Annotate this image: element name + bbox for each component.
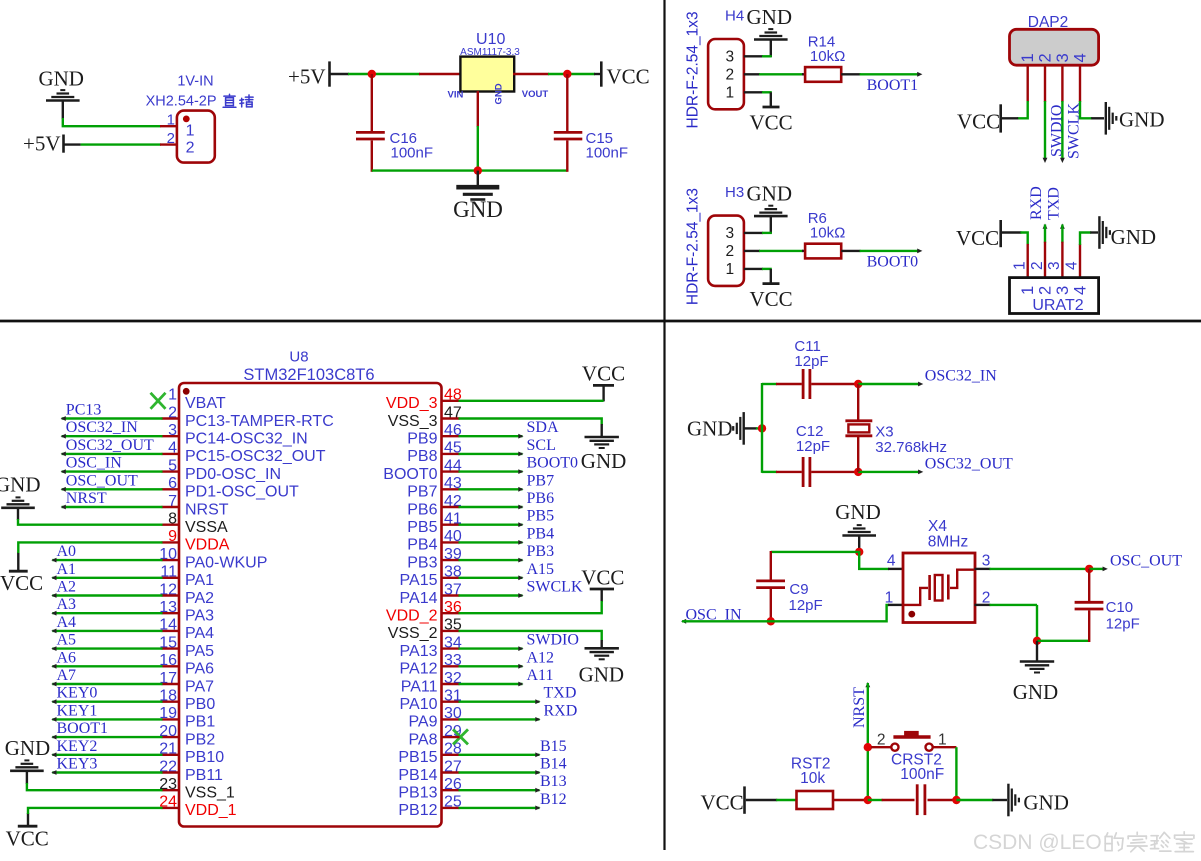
wire net A1 (pin 11)	[52, 577, 162, 579]
junction node CRST2/GND	[952, 796, 960, 804]
svg-text:PB8: PB8	[407, 448, 437, 465]
wire X4 pin2 down to gnd	[990, 604, 1038, 606]
svg-text:HDR-F-2.54_1x3: HDR-F-2.54_1x3	[684, 188, 701, 305]
wire URAT2 pin2 RXD	[1043, 224, 1048, 229]
wire to X4 pin 1	[886, 605, 889, 621]
svg-text:PB9: PB9	[407, 431, 437, 448]
wire net A3 (pin 13)	[52, 612, 162, 614]
svg-text:10k: 10k	[800, 770, 825, 787]
junction node VCC/C15	[563, 70, 571, 78]
svg-text:PA4: PA4	[185, 625, 214, 642]
svg-text:GND: GND	[494, 83, 505, 104]
svg-text:2: 2	[725, 243, 734, 260]
wire net BOOT1 (pin 20)	[52, 736, 162, 738]
wire DAP2 pin1 to VCC	[1017, 101, 1027, 118]
svg-text:2: 2	[725, 67, 734, 84]
URAT2 pin 1 stub	[1026, 244, 1028, 278]
wire junction to button pin2	[871, 746, 892, 748]
svg-text:VCC: VCC	[607, 65, 650, 89]
svg-text:GND: GND	[1023, 791, 1069, 815]
svg-text:GND: GND	[5, 736, 51, 760]
svg-text:PB6: PB6	[527, 490, 555, 507]
capacitor C11	[776, 383, 802, 385]
svg-text:A5: A5	[57, 632, 77, 649]
svg-text:PA10: PA10	[400, 696, 438, 713]
wire junction to C10	[1037, 640, 1089, 642]
wire pin 35 to GND	[459, 631, 602, 641]
wire to X4 pin 4	[859, 551, 889, 569]
svg-text:+5V: +5V	[288, 65, 326, 89]
svg-text:VCC: VCC	[956, 226, 999, 250]
power port VCC (H4)	[770, 92, 772, 106]
power ground (X4 bottom)	[1036, 641, 1038, 661]
wire net A5 (pin 15)	[52, 647, 162, 649]
connector 1V-IN pin-1 orientation dot	[183, 116, 190, 123]
svg-text:1: 1	[168, 387, 177, 404]
svg-text:VDDA: VDDA	[185, 537, 230, 554]
wire net PB6 (pin 42)	[459, 506, 523, 508]
wire net B13 (pin 26)	[459, 789, 540, 791]
svg-text:1: 1	[1019, 286, 1037, 295]
header H3 body	[708, 216, 744, 286]
wire net A0 (pin 10)	[52, 559, 162, 561]
svg-text:SWDIO: SWDIO	[527, 632, 579, 649]
capacitor C9 top lead	[770, 551, 772, 580]
svg-text:RXD: RXD	[1028, 186, 1045, 220]
svg-text:C10: C10	[1106, 599, 1134, 616]
svg-text:GND: GND	[38, 67, 84, 91]
svg-text:1: 1	[1019, 53, 1037, 62]
wire net OSC32_OUT (pin 4)	[62, 453, 163, 455]
svg-text:BOOT0: BOOT0	[867, 253, 919, 270]
junction node X4 pin2 gnd	[1033, 637, 1041, 645]
svg-text:H4: H4	[725, 8, 744, 25]
svg-text:GND: GND	[1013, 680, 1058, 704]
crystal X3	[845, 419, 872, 422]
U10 GND pin lead	[477, 91, 479, 127]
wire VCC to pin 48	[459, 400, 604, 402]
wire net KEY2 (pin 21)	[52, 754, 162, 756]
svg-text:12pF: 12pF	[789, 597, 823, 614]
wire H3 pin3 to GND	[744, 232, 763, 234]
junction node +5V/C16	[368, 70, 376, 78]
svg-text:A7: A7	[57, 667, 77, 684]
power port VCC (left of U8, pin 24 VDD_1)	[27, 813, 29, 826]
svg-text:VSS_2: VSS_2	[388, 625, 438, 642]
svg-text:2: 2	[1037, 286, 1055, 295]
wire GND to J1 pin1	[63, 118, 161, 126]
capacitor C15 top lead	[566, 74, 568, 131]
wire URAT2 pin4 to GND	[1080, 233, 1091, 245]
svg-text:3: 3	[1054, 286, 1072, 295]
svg-text:NRST: NRST	[66, 490, 107, 507]
wire RST2 to junction	[833, 799, 869, 801]
svg-text:OSC_OUT: OSC_OUT	[66, 472, 138, 489]
svg-text:PA2: PA2	[185, 590, 214, 607]
connector 1V-IN XH2.54-2P	[177, 111, 215, 163]
crystal X4 body	[903, 553, 975, 623]
svg-text:3: 3	[725, 49, 734, 66]
wire net KEY3 (pin 22)	[52, 771, 162, 773]
svg-text:4: 4	[887, 553, 896, 570]
wire URAT2 pin3 TXD	[1060, 224, 1065, 229]
svg-text:PC13: PC13	[66, 402, 102, 419]
junction node OSC32_IN	[854, 380, 862, 388]
wire DAP2 pin3 SWCLK	[1061, 101, 1063, 160]
svg-text:OSC_OUT: OSC_OUT	[1110, 553, 1182, 570]
wire net RXD (pin 30)	[459, 718, 540, 720]
capacitor C15	[554, 131, 583, 134]
svg-text:VSS_3: VSS_3	[388, 413, 438, 430]
svg-text:C9: C9	[789, 581, 808, 598]
pin stub U10 VIN	[419, 73, 461, 75]
svg-text:4: 4	[1071, 286, 1089, 295]
svg-text:PA8: PA8	[408, 731, 437, 748]
svg-text:RXD: RXD	[544, 702, 578, 719]
wire VCC to URAT2 pin1	[1002, 231, 1021, 233]
capacitor C9 bottom lead	[770, 589, 772, 622]
wire DAP2 pin4 to GND	[1080, 101, 1092, 118]
svg-text:PA14: PA14	[400, 590, 438, 607]
capacitor C16 bottom lead	[371, 141, 373, 172]
svg-text:PB4: PB4	[407, 537, 437, 554]
svg-text:4: 4	[1071, 53, 1089, 62]
X4 orientation dot	[908, 611, 915, 618]
svg-text:NRST: NRST	[851, 687, 868, 728]
power port VCC (H3)	[770, 269, 772, 283]
svg-text:SCL: SCL	[527, 437, 556, 454]
svg-text:A6: A6	[57, 649, 77, 666]
wire net PB4 (pin 40)	[459, 541, 523, 543]
wire net PB7 (pin 43)	[459, 488, 523, 490]
svg-text:BOOT1: BOOT1	[57, 720, 109, 737]
svg-text:1: 1	[938, 732, 947, 749]
wire button pin1 down	[933, 746, 957, 748]
svg-text:HDR-F-2.54_1x3: HDR-F-2.54_1x3	[684, 11, 701, 128]
crystal X3 top lead	[857, 384, 859, 421]
svg-text:PA3: PA3	[185, 608, 214, 625]
svg-text:3: 3	[725, 225, 734, 242]
svg-text:PB5: PB5	[407, 519, 437, 536]
svg-text:TXD: TXD	[1046, 187, 1063, 220]
divider vertical line	[663, 0, 665, 850]
svg-text:A2: A2	[57, 579, 77, 596]
junction node OSC32_OUT	[854, 468, 862, 476]
wire net SCL (pin 45)	[459, 453, 523, 455]
svg-text:A3: A3	[57, 596, 77, 613]
svg-text:PB11: PB11	[185, 767, 223, 784]
wire net SDA (pin 46)	[459, 435, 523, 437]
svg-text:A1: A1	[57, 561, 77, 578]
wire net KEY0 (pin 18)	[52, 701, 162, 703]
junction node RST2/NRST	[864, 796, 872, 804]
wire net A6 (pin 16)	[52, 665, 162, 667]
wire net A4 (pin 14)	[52, 630, 162, 632]
wire net B15 (pin 28)	[459, 754, 540, 756]
svg-text:PB5: PB5	[527, 508, 555, 525]
wire net PB3 (pin 39)	[459, 559, 523, 561]
header H4 body	[708, 39, 744, 109]
svg-text:U8: U8	[289, 349, 308, 366]
svg-text:2: 2	[877, 732, 886, 749]
wire pin 47 to GND	[459, 419, 602, 426]
svg-text:VBAT: VBAT	[185, 395, 226, 412]
svg-text:VOUT: VOUT	[522, 89, 549, 100]
crystal X3 bottom lead	[857, 436, 859, 472]
svg-text:CSDN @LEO: CSDN @LEO	[973, 831, 1102, 854]
svg-text:OSC32_IN: OSC32_IN	[925, 367, 997, 384]
svg-text:100nF: 100nF	[900, 766, 944, 783]
svg-text:GND: GND	[453, 197, 503, 222]
X4 pin 3 stub	[975, 568, 991, 570]
wire net SWDIO (pin 34)	[459, 647, 523, 649]
capacitor C10	[1075, 601, 1104, 604]
MCU U8 body	[179, 383, 442, 827]
svg-text:10kΩ: 10kΩ	[810, 48, 845, 65]
wire X4 gnd bus left	[771, 551, 860, 553]
svg-text:3: 3	[1054, 53, 1072, 62]
svg-text:VCC: VCC	[750, 287, 793, 311]
svg-text:PC15-OSC32_OUT: PC15-OSC32_OUT	[185, 448, 326, 465]
svg-text:PB3: PB3	[407, 554, 437, 571]
svg-text:1: 1	[725, 85, 734, 102]
svg-text:OSC32_OUT: OSC32_OUT	[66, 437, 154, 454]
svg-text:A4: A4	[57, 614, 77, 631]
resistor R6	[805, 244, 841, 259]
svg-text:1: 1	[1011, 261, 1028, 270]
svg-text:KEY2: KEY2	[57, 738, 98, 755]
wire net OSC_OUT (pin 6)	[62, 488, 163, 490]
wire GND to X3 bus	[744, 427, 757, 429]
svg-text:VCC: VCC	[701, 791, 744, 815]
wire net A7 (pin 17)	[52, 683, 162, 685]
wire net BOOT0 (pin 44)	[459, 470, 523, 472]
wire net PC13 (pin 2)	[62, 417, 163, 419]
svg-text:12pF: 12pF	[794, 353, 828, 370]
svg-text:GND: GND	[1111, 225, 1157, 249]
svg-text:BOOT0: BOOT0	[383, 466, 437, 483]
svg-text:B15: B15	[540, 738, 567, 755]
svg-text:PD0-OSC_IN: PD0-OSC_IN	[185, 466, 281, 483]
svg-text:GND: GND	[579, 663, 625, 687]
wire net TXD (pin 31)	[459, 701, 540, 703]
wire H4 pin2 to resistor R14	[744, 73, 760, 75]
wire net PB5 (pin 41)	[459, 524, 523, 526]
svg-text:TXD: TXD	[544, 685, 577, 702]
wire net A12 (pin 33)	[459, 665, 523, 667]
wire net A15 (pin 38)	[459, 577, 523, 579]
power ground (right of U8, pin 35 VSS_2)	[585, 647, 619, 650]
resistor RST2	[797, 791, 834, 809]
capacitor C16	[356, 131, 385, 134]
svg-text:3: 3	[1046, 261, 1063, 270]
wire net B12 (pin 25)	[459, 807, 540, 809]
wire VCC to pin 36	[459, 601, 602, 613]
wire VCC to RST2	[746, 799, 777, 801]
svg-text:OSC32_OUT: OSC32_OUT	[925, 455, 1013, 472]
junction node OSC_OUT	[1085, 565, 1093, 573]
divider horizontal line	[0, 320, 1201, 323]
wire net B14 (pin 27)	[459, 771, 540, 773]
wire U10 VOUT to VCC	[548, 73, 595, 75]
voltage regulator U10 body	[460, 57, 514, 92]
wire DAP2 pin2 SWDIO	[1044, 101, 1046, 160]
svg-text:B12: B12	[540, 791, 567, 808]
svg-text:PA11: PA11	[401, 678, 438, 695]
svg-text:2: 2	[167, 130, 175, 147]
svg-text:PA1: PA1	[185, 572, 214, 589]
svg-text:VCC: VCC	[6, 827, 49, 851]
svg-text:A0: A0	[57, 543, 77, 560]
svg-text:PB10: PB10	[185, 749, 224, 766]
svg-text:1: 1	[186, 122, 195, 139]
svg-text:VIN: VIN	[448, 90, 464, 101]
svg-text:URAT2: URAT2	[1032, 297, 1083, 314]
svg-text:PB14: PB14	[398, 767, 437, 784]
URAT2 pin 2 stub	[1044, 242, 1046, 278]
power ground (DAP2, bar style)	[1105, 102, 1107, 135]
svg-text:X3: X3	[875, 424, 893, 441]
svg-text:SDA: SDA	[527, 419, 559, 436]
wire H4 pin1 to VCC	[744, 91, 763, 93]
wire R6 to net label	[841, 250, 860, 252]
capacitor C15 bottom lead	[566, 141, 568, 172]
X4 pin 4 stub	[888, 568, 904, 570]
wire VCC to pin 24	[28, 808, 163, 814]
resistor R14	[805, 67, 841, 82]
svg-text:BOOT1: BOOT1	[867, 77, 919, 94]
power port VCC (DAP2)	[999, 104, 1002, 132]
svg-text:KEY0: KEY0	[57, 685, 98, 702]
wire net NRST (pin 7)	[62, 506, 163, 508]
svg-text:ASM1117-3.3: ASM1117-3.3	[460, 47, 520, 58]
wire GND to pin 23	[27, 783, 163, 790]
connector URAT2 body	[1010, 278, 1099, 314]
junction node ground bus	[474, 166, 482, 174]
wire to net OSC32_OUT	[858, 471, 920, 473]
power ground (URAT2, bar style)	[1098, 216, 1100, 249]
svg-text:VCC: VCC	[0, 571, 43, 595]
svg-text:PB4: PB4	[527, 525, 555, 542]
svg-text:VSSA: VSSA	[185, 519, 228, 536]
wire +5V to U10 VIN	[331, 73, 350, 75]
svg-text:VDD_2: VDD_2	[386, 608, 438, 625]
wire H4 pin3 to GND	[744, 55, 763, 57]
svg-text:PB15: PB15	[398, 749, 437, 766]
DAP2 pin 2 stub	[1044, 65, 1046, 102]
svg-text:12pF: 12pF	[796, 438, 830, 455]
wire to GND (reset)	[956, 799, 993, 801]
wire R14 to net label	[841, 73, 860, 75]
svg-text:3: 3	[982, 553, 991, 570]
junction node NRST/button	[864, 743, 872, 751]
svg-text:PB1: PB1	[185, 714, 215, 731]
wire X3 left bus	[761, 383, 763, 473]
button CRST2 right contact	[926, 744, 933, 751]
svg-text:VCC: VCC	[581, 566, 624, 590]
wire net NRST vertical	[865, 682, 870, 687]
URAT2 pin 3 stub	[1061, 242, 1063, 278]
svg-text:A12: A12	[527, 649, 555, 666]
svg-text:A11: A11	[527, 667, 554, 684]
URAT2 pin 4 stub	[1079, 244, 1081, 278]
svg-text:GND: GND	[0, 473, 41, 497]
svg-text:1: 1	[167, 111, 175, 128]
wire +5V to J1 pin2	[65, 143, 81, 145]
svg-text:PA15: PA15	[400, 572, 438, 589]
svg-text:U10: U10	[476, 31, 505, 48]
svg-text:BOOT0: BOOT0	[527, 455, 579, 472]
wire to net OSC32_IN	[858, 383, 920, 385]
svg-text:VCC: VCC	[957, 109, 1000, 133]
svg-text:B13: B13	[540, 773, 567, 790]
svg-text:PB7: PB7	[407, 484, 437, 501]
pin 2 stub of connector 1V-IN	[160, 143, 178, 145]
svg-text:PA7: PA7	[185, 678, 214, 695]
svg-text:PC13-TAMPER-RTC: PC13-TAMPER-RTC	[185, 413, 334, 430]
svg-text:PB12: PB12	[398, 802, 437, 819]
X4 pin 1 stub	[888, 604, 904, 606]
svg-text:1: 1	[885, 589, 894, 606]
wire ground bus under U10	[372, 169, 568, 171]
svg-text:2: 2	[186, 140, 195, 157]
svg-text:XH2.54-2P: XH2.54-2P	[146, 94, 217, 110]
U8 pin 29 stub	[441, 736, 460, 738]
wire net A11 (pin 32)	[459, 683, 523, 685]
DAP2 pin 1 stub	[1026, 65, 1028, 102]
wire junction to CRST2 cap	[868, 799, 883, 801]
svg-text:GND: GND	[835, 500, 881, 524]
svg-text:VDD_3: VDD_3	[386, 395, 438, 412]
power ground (reset, bar style)	[1007, 784, 1009, 817]
svg-text:PB3: PB3	[527, 543, 555, 560]
DAP2 pin 4 stub	[1079, 65, 1081, 102]
svg-text:2: 2	[1037, 53, 1055, 62]
svg-text:KEY1: KEY1	[57, 702, 98, 719]
svg-text:STM32F103C8T6: STM32F103C8T6	[243, 366, 374, 384]
svg-text:100nF: 100nF	[586, 144, 629, 161]
svg-text:VDD_1: VDD_1	[185, 802, 237, 819]
wire OSC32_OUT bottom	[762, 471, 777, 473]
svg-text:PC14-OSC32_IN: PC14-OSC32_IN	[185, 431, 308, 448]
svg-text:VCC: VCC	[582, 362, 625, 386]
svg-text:KEY3: KEY3	[57, 756, 98, 773]
power port VCC (U10 output)	[600, 61, 603, 86]
button CRST2 left contact	[891, 744, 898, 751]
wire X4 pin3 to OSC_OUT	[990, 568, 1091, 570]
svg-text:12pF: 12pF	[1106, 616, 1140, 633]
svg-text:X4: X4	[928, 518, 947, 535]
capacitor C10 bottom lead	[1088, 610, 1090, 642]
power ground (right of U8, pin 47 VSS_3)	[585, 436, 619, 439]
ground symbol (U10)	[477, 171, 479, 185]
svg-text:8MHz: 8MHz	[928, 534, 968, 551]
connector DAP2 body	[1010, 29, 1099, 65]
U8 pin-1 orientation dot	[183, 388, 190, 395]
wire VCC to pin 9	[18, 542, 162, 553]
svg-text:A15: A15	[527, 561, 555, 578]
svg-text:PA5: PA5	[185, 643, 214, 660]
svg-text:PB0: PB0	[185, 696, 215, 713]
wire net OSC_IN	[681, 619, 686, 624]
X4 pin 2 stub	[975, 604, 991, 606]
capacitor C12	[776, 471, 802, 473]
svg-text:+5V: +5V	[23, 132, 61, 156]
svg-text:SWCLK: SWCLK	[527, 579, 583, 596]
button CRST2 actuator bar	[893, 735, 930, 738]
svg-text:32.768kHz: 32.768kHz	[875, 439, 947, 456]
X4 internal crystal symbol	[904, 588, 928, 605]
